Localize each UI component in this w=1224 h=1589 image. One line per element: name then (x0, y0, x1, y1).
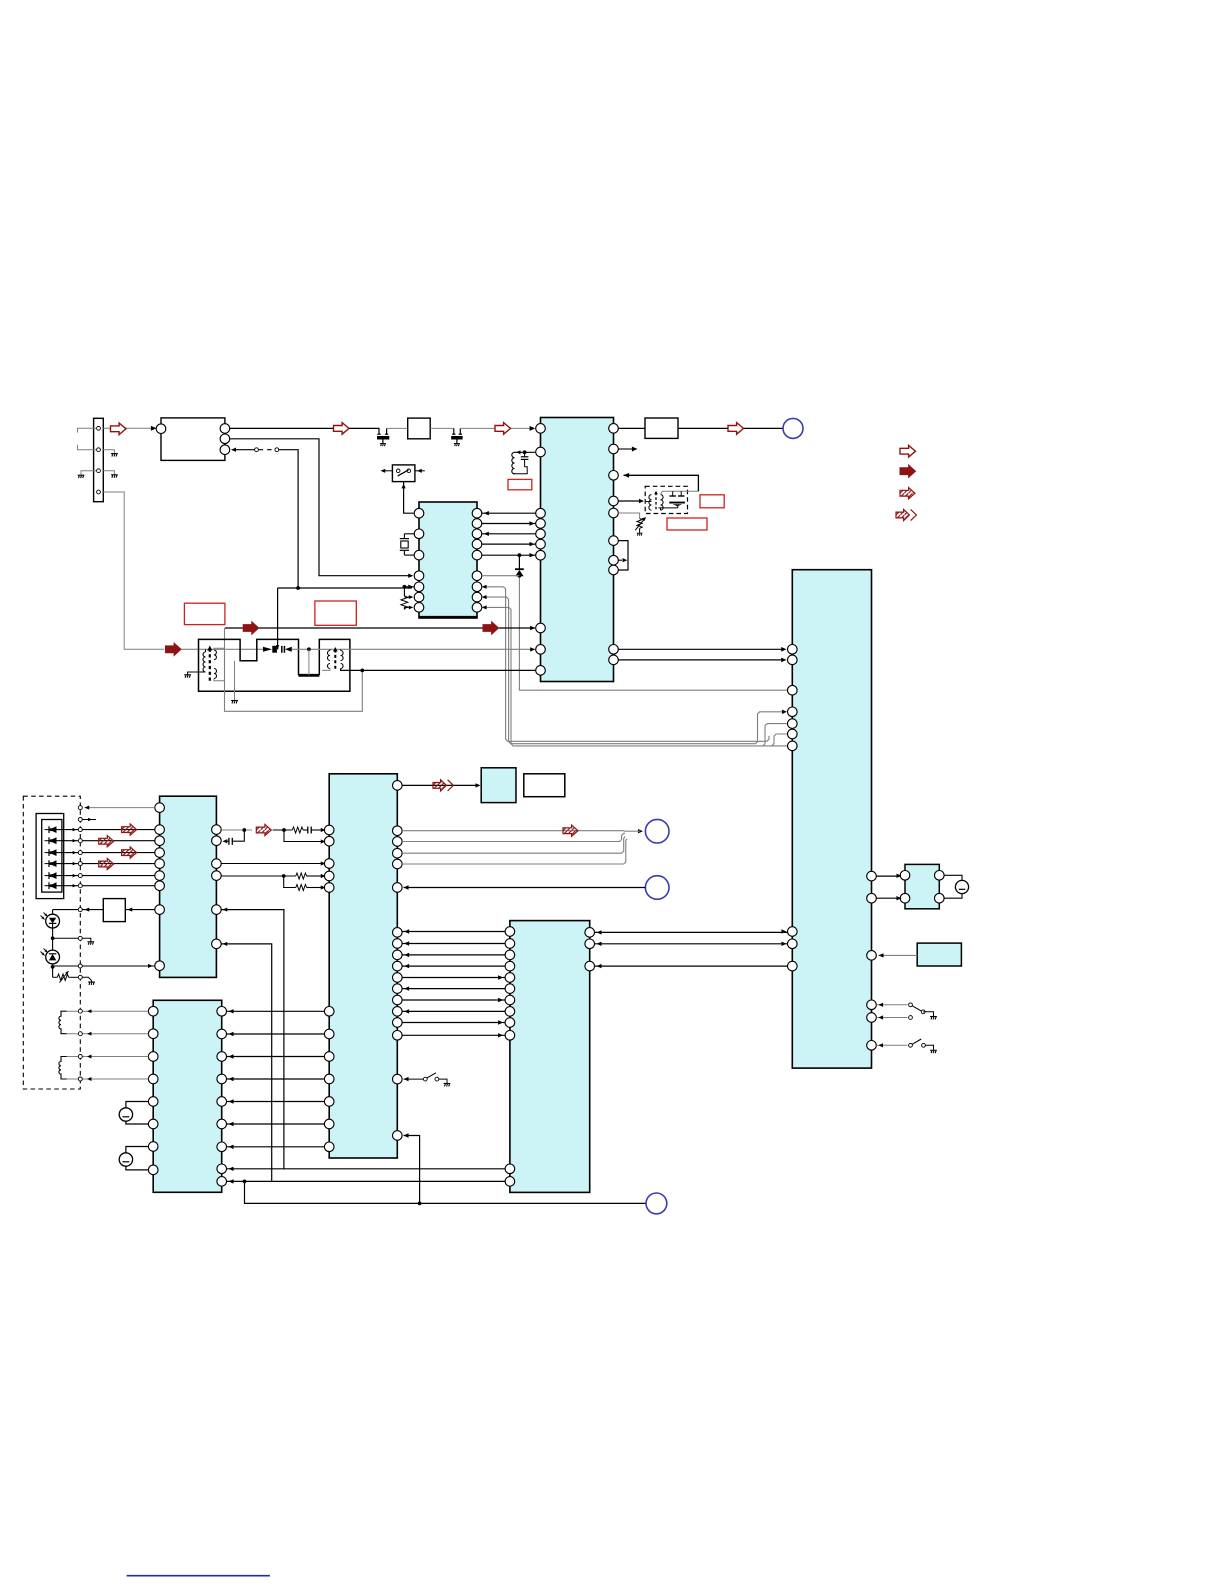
wire CN1 pin4 down to opto row (103, 492, 164, 649)
switch S1 right wire (415, 470, 425, 472)
wire gray riser x224 down (225, 628, 363, 711)
motor M3 (955, 880, 968, 893)
wire into transformer box (181, 648, 263, 650)
IC1 right pins (609, 424, 619, 434)
stub row 819 (78, 818, 82, 822)
switch S4 (876, 1044, 907, 1046)
wire row 876 + resistors (221, 875, 296, 877)
gray riser x224 from T1 (224, 681, 226, 712)
wire J3 to IC4 row 887 (404, 887, 646, 889)
legend arrow solid (900, 465, 916, 477)
red box R-C (315, 601, 356, 625)
wire IC2 pin586.8 down-bundle (482, 587, 769, 742)
block A output pins (220, 424, 230, 434)
wire IC7 to CN2 row876 (876, 875, 900, 877)
arrowhead into IC1 pin1 (530, 426, 536, 431)
IC6 interface IC (lower-middle) (510, 921, 590, 1193)
wire box B to feedthrough C2 (430, 427, 454, 429)
ground FC1 (380, 444, 386, 447)
wire IC2 pin597.1 down-bundle (482, 597, 786, 744)
CN1 pin2 stub wire (78, 445, 97, 450)
wire IC4 to cyan box D (402, 784, 478, 786)
branch row887 resistor (284, 876, 296, 888)
arrow marker solid S3 (166, 643, 182, 655)
source V2 (119, 1153, 132, 1166)
IC3 right pins (212, 825, 222, 835)
IC7 left pins (788, 645, 798, 655)
LED LD1 (52, 910, 54, 915)
ground T1 primary (188, 672, 206, 675)
diode pair D2 D3 (263, 647, 272, 652)
stub arrow IC1 right pin 449 (618, 448, 632, 450)
hybrid transformer T3 (649, 495, 652, 511)
ground S3 (930, 1017, 937, 1020)
IC3 photo detector IC (mid-left) (160, 796, 217, 977)
transformer T1 with core (203, 652, 205, 672)
gray riser x234 to ground (234, 661, 236, 701)
cyan box D (481, 768, 516, 803)
arrow marker open A3 (495, 423, 511, 435)
riser D1 to tall IC row 690 (519, 576, 787, 690)
wire IC1 pin501 to hybrid (618, 500, 640, 502)
wire IC3 pin 909 right riser (221, 910, 505, 1169)
wire IC1 out to box C (618, 427, 645, 429)
wire IC7 to CN2 row898 (876, 897, 900, 899)
wire row 841 curve (402, 833, 625, 841)
IC2 left pins (414, 508, 424, 518)
resistor R2 (292, 827, 303, 833)
wire row 853 curve (402, 836, 625, 853)
footer blue rule (127, 1575, 270, 1577)
dashed assembly box (23, 796, 80, 1089)
IC4 right pins (393, 781, 403, 791)
arrow marker open A2 (334, 423, 350, 435)
IC7 servo/system IC (tall right) (792, 570, 871, 1068)
switch S1 contacts (396, 469, 400, 473)
feedthrough capacitor FC2 (453, 428, 455, 434)
wires IC2 to IC1 (5 rows) (482, 512, 536, 514)
cyan box G (917, 943, 961, 966)
wire block A out1 (top rail) (230, 427, 334, 429)
stub IC1 pin 560 to bracket (618, 559, 622, 561)
wire to feedthrough C1 (349, 427, 380, 429)
switch S3 (876, 1004, 907, 1006)
CN1 pin3 right wire (103, 471, 114, 475)
arrow marker hatch B2 (563, 825, 578, 836)
wire FC2 to IC1 (460, 427, 531, 429)
white box E (524, 774, 565, 797)
ground S4 (930, 1050, 937, 1053)
block A input pin (156, 424, 166, 434)
hybrid capacitors (661, 491, 699, 494)
CN1 pin1 stub wire (78, 428, 97, 432)
wire IC3 pin 943 riser (221, 944, 505, 1182)
transformer module outline (199, 639, 299, 675)
wire box G to IC7 pin955 (879, 954, 918, 956)
wire loop IC1 pin 475 (624, 473, 630, 478)
arrow into IC5 rows 1168/1181 (227, 1168, 284, 1170)
gray wire through module to IC1 pin 649 (292, 648, 535, 650)
ground CN1-pin3 right (111, 475, 118, 478)
varistor RV1 (618, 513, 639, 519)
legend arrow open (900, 445, 916, 457)
box F (amp) (103, 899, 125, 922)
IC5 motor driver (lower-left) (153, 1000, 222, 1192)
wire LD2 to IC3 pin 965 (52, 964, 54, 967)
crystal X1 (404, 533, 414, 535)
box C (output) (645, 418, 678, 438)
IC2 sub IC (medium) (419, 502, 477, 618)
IC6 left pins (505, 927, 515, 937)
IC3 left pins (155, 803, 165, 813)
source V1 (119, 1108, 132, 1121)
ground under module (231, 701, 238, 704)
diode D1 on riser (518, 555, 520, 569)
wires IC5 to IC4 rows (227, 1010, 325, 1012)
wire block A out3 dash-dot to IC2 pin 586.8 (231, 447, 236, 451)
ground FC2 (454, 444, 460, 447)
ground varistor (637, 533, 643, 535)
arrow marker open A1 (111, 423, 127, 435)
CN1 pin3 left wire (81, 471, 96, 476)
capacitor C4 row 841 (223, 839, 228, 843)
wire node to IC2 pin 586.8 horizontal (278, 587, 412, 589)
IC7 right pins (867, 871, 877, 881)
block A (tuner module) (161, 418, 225, 461)
LC network at IC1 pin452 (512, 452, 515, 474)
legend arrow hatched double (896, 509, 916, 520)
wire box F to IC3 pin 909 (125, 909, 155, 911)
arrow marker hatch2 B1 (433, 780, 453, 791)
feedthrough capacitor FC1 (378, 428, 380, 434)
arrowhead into block A (151, 426, 157, 431)
IC1 main system IC (top) (541, 418, 614, 682)
IC4 mechanism control IC (center) (329, 774, 397, 1158)
wire IC3 pin 807 to flex (85, 807, 155, 809)
variable resistor VR1 (52, 967, 54, 977)
arrow marker hatch rows (122, 824, 137, 835)
arrow marker solid S1 (243, 622, 259, 634)
wire T2 secondary to IC1 pin 670 (341, 669, 536, 671)
IC5 right pins (217, 1007, 227, 1017)
motor coil M2 (59, 1057, 67, 1080)
ground LD row (87, 942, 94, 945)
wire IC1 right 540-570 bracket (618, 541, 628, 570)
ground CN1-pin2 (111, 454, 118, 457)
CN1 pin2 ground wire (103, 450, 114, 454)
wires IC1 to tall IC rows 649/660 (618, 648, 783, 650)
switch S1 blade (398, 470, 409, 476)
arrow marker hatch row830 (256, 824, 271, 835)
ground VR1 (88, 982, 95, 985)
wire row 864 curve (402, 839, 627, 864)
branch to tall pin 723.6 (763, 724, 788, 746)
wire CN1-pin1 to block A (103, 427, 153, 429)
LD1 light arrows (44, 913, 48, 917)
box B (filter) (408, 418, 431, 439)
wires IC6 to IC7 rows (595, 931, 788, 933)
ground S2 (444, 1084, 451, 1087)
wire IC2 pin575.7 to riser (482, 575, 520, 577)
red box R-A (508, 479, 532, 489)
blue circle J2 (645, 819, 669, 843)
transformer T2 with core (328, 651, 331, 661)
wire LD1 to ground row (52, 928, 54, 938)
IC6 right pins (585, 928, 595, 938)
switch S1 left wire (383, 470, 393, 472)
legend arrow hatched (900, 488, 915, 499)
wire riser to IC4 pin 1135 (404, 1136, 420, 1204)
ground CN1-pin3 left (78, 475, 85, 478)
red box R-E (667, 518, 707, 530)
red box R-D (700, 495, 724, 508)
wire box C to output circle (678, 427, 783, 429)
resistor R1 at IC2 (404, 586, 414, 588)
switch S2 at IC4 (404, 1077, 409, 1081)
dashed hybrid box (645, 486, 687, 513)
branch row830 to IC4 pin 841 (284, 830, 323, 842)
switch S1 bottom wire to IC2 (404, 482, 414, 514)
wires IC4 to IC6 rows (402, 931, 505, 933)
wire IC1 pin628 rail (225, 627, 535, 629)
arrow marker solid S2 (483, 622, 499, 634)
branch to tall pin 734 (772, 734, 788, 746)
IC1 left pins (536, 424, 546, 434)
photo diodes (49, 826, 57, 833)
wire box F left to LED riser (53, 909, 104, 911)
wire IC4 row830 to circle J2 (402, 830, 623, 832)
gray drop from dot (308, 649, 310, 675)
wire FC1 to box B (387, 427, 408, 429)
arrow marker open A4 (728, 423, 744, 435)
wire IC2 pin607.4 down-bundle (482, 607, 788, 746)
IC4 left pins (324, 825, 334, 835)
output circle J1 (783, 418, 803, 438)
photo row wires (57, 829, 155, 831)
photo diode LD2 (52, 938, 54, 950)
IC5 left pins (148, 1006, 158, 1016)
switch S1 box (392, 465, 415, 482)
photo diode array box (36, 814, 64, 899)
blue circle J4 (646, 1193, 667, 1214)
capacitor C3 (307, 827, 309, 834)
motor coil M1 (59, 1011, 67, 1033)
red box R-B (184, 603, 225, 624)
wires IC3 to IC4 row830 network (221, 829, 252, 831)
IC2 right pins (472, 508, 482, 518)
blue circle J3 (645, 876, 669, 900)
connector CN2 cyan (905, 864, 939, 908)
wire row 863.5 (221, 863, 322, 865)
LD2 light arrows (44, 949, 48, 953)
wire block A out2 to IC2 pin 575.7 (230, 439, 412, 576)
connector CN1 (94, 418, 104, 501)
riser to long bottom wire (245, 1181, 646, 1203)
